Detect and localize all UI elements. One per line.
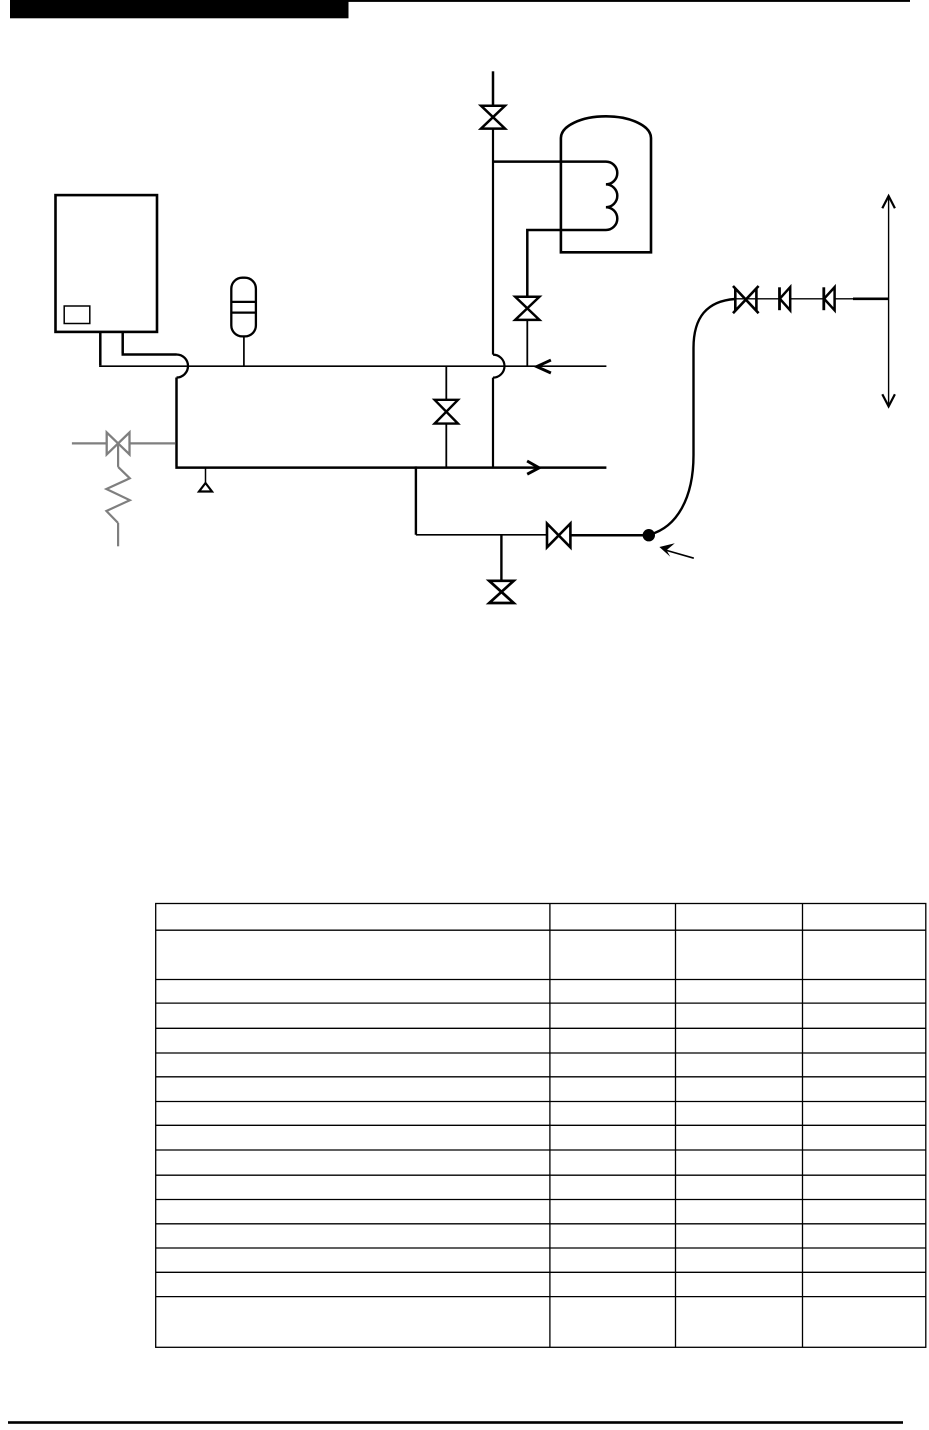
junction node (filling point) [643, 529, 655, 541]
flow arrow (right) on return line [527, 461, 539, 474]
footer rule [8, 1421, 903, 1424]
bypass line with valve V3 [445, 366, 447, 467]
mains water line thin segments [735, 298, 853, 300]
table row lines [156, 930, 926, 1296]
double arrow top head [882, 196, 895, 208]
check valve B2 [778, 287, 781, 310]
DHW riser [492, 129, 494, 355]
drain point stem [205, 468, 207, 484]
flexible filling hose [650, 299, 735, 535]
valve B1 (mains stop valve, bowtie) [733, 286, 759, 313]
check valve B3 [822, 287, 825, 310]
coil heat exchanger feed line [493, 162, 617, 297]
valve V5 (drain valve) [489, 581, 514, 603]
safety valve spring zigzag [106, 467, 129, 523]
table column line 2 [675, 904, 677, 1348]
cold water feed line [416, 534, 547, 536]
header rule [349, 0, 911, 2]
drain point triangle [199, 483, 212, 492]
pipe crossover hop (return drop over flow line) [177, 355, 189, 378]
expansion vessel stem [243, 336, 245, 366]
cold water branch drop [415, 466, 417, 534]
flow line (boiler to heating circuit) [99, 365, 606, 367]
table outer border [156, 904, 926, 1348]
hot water storage tank [561, 116, 651, 252]
valve V1 (cold water shut-off, vertical) [481, 106, 505, 129]
coil return drop to flow line [526, 320, 528, 366]
line valve V4 to junction node [570, 534, 645, 537]
header black title bar [10, 0, 349, 18]
valve V3 (bypass valve) [435, 400, 458, 424]
mains water line thick segment [853, 297, 889, 300]
safety valve discharge stem [117, 443, 119, 467]
safety valve (gray bowtie) [107, 432, 130, 454]
expansion vessel [231, 278, 256, 337]
drain stem [500, 535, 502, 581]
boiler [56, 195, 158, 332]
boiler flow pipe (left outlet down) [99, 332, 102, 365]
boiler control panel label [64, 306, 90, 324]
safety valve discharge tail [117, 523, 119, 546]
DHW inlet pipe top [492, 71, 495, 105]
table column line 1 [549, 904, 551, 1348]
return riser and return line [175, 378, 606, 468]
flow arrow (left) on flow line [537, 360, 551, 373]
mains supply double arrow line [888, 197, 890, 407]
double arrow bottom head [882, 394, 895, 406]
valve V4 (filling valve, horizontal) [547, 524, 570, 548]
DHW riser lower part [492, 378, 494, 468]
expansion vessel band lines [231, 302, 256, 313]
table column line 3 [802, 904, 804, 1348]
pointer arrow to filling point [667, 550, 694, 558]
pipe crossover hop (DHW riser over flow line) [493, 355, 505, 378]
boiler return pipe (right outlet, elbow right) [122, 332, 177, 355]
safety valve group (gray) feed line [72, 442, 175, 444]
valve V2 (coil return valve) [515, 297, 539, 320]
